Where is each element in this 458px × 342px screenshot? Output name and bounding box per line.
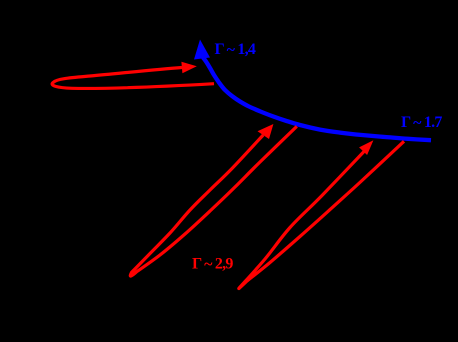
svg-text:Γ ~ 2,9: Γ ~ 2,9 <box>192 256 233 274</box>
red arrowhead 1 <box>181 62 196 74</box>
red arrowhead 2 <box>258 124 274 139</box>
red arrowhead 3 <box>359 140 373 155</box>
red loop arrow 3 (lower-right diagonal loop) <box>239 141 404 288</box>
red loop arrow 2 (lower-left diagonal loop) <box>130 126 296 276</box>
red loop arrow 1 (left horizontal loop) <box>52 68 214 89</box>
svg-text:Γ ~ 1.7: Γ ~ 1.7 <box>401 114 442 132</box>
blue spectral-index curve <box>203 58 431 141</box>
blue arrowhead at top of curve <box>194 40 210 60</box>
svg-text:Γ ~ 1,4: Γ ~ 1,4 <box>215 41 256 59</box>
